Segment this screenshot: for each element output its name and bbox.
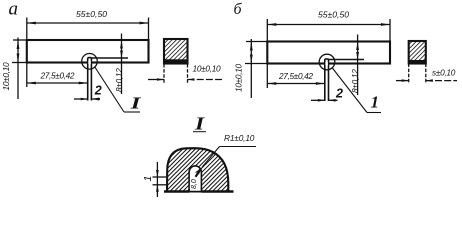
white gap in bar bottom edge at slot [88, 61, 91, 65]
svg-text:1: 1 [142, 176, 154, 182]
dimension 10±0,10 left (b) [245, 39, 267, 98]
dimension 27,5±0,42 (b) [267, 64, 325, 89]
svg-text:2: 2 [335, 87, 343, 101]
svg-text:8,0: 8,0 [191, 179, 198, 189]
bar a outline [27, 40, 149, 63]
cross-section square (a) [164, 39, 188, 64]
detail notch arch [189, 166, 201, 192]
dimension 8±0,12 (a) [91, 34, 128, 95]
detail dim 1 (left) [153, 162, 167, 197]
dimension 2 (b) [311, 99, 338, 101]
svg-text:1: 1 [371, 93, 380, 112]
svg-text:8±0,12: 8±0,12 [350, 69, 360, 93]
svg-text:27,5±0,42: 27,5±0,42 [40, 71, 75, 81]
svg-text:I: I [130, 93, 142, 112]
svg-text:55±0,50: 55±0,50 [318, 10, 349, 20]
thick base of rect (b) [409, 60, 426, 64]
svg-text:8±0,12: 8±0,12 [114, 68, 124, 92]
cross-section rect (b) [409, 41, 426, 64]
svg-text:10±0,10: 10±0,10 [193, 64, 222, 74]
detail radius leader R1±0,10 [202, 147, 256, 168]
svg-text:55±0,50: 55±0,50 [76, 9, 107, 19]
dimension 27,5±0,42 (a) [27, 63, 88, 88]
svg-text:10±0,10: 10±0,10 [1, 62, 11, 91]
white gap in bar b bottom edge at slot [325, 62, 328, 66]
svg-text:27,5±0,42: 27,5±0,42 [278, 71, 313, 81]
leader to detail I (a) [95, 67, 141, 113]
notch slot in bar b [325, 59, 329, 101]
svg-text:б: б [234, 1, 243, 18]
svg-text:s±0,10: s±0,10 [432, 68, 456, 78]
notch slot in bar a [88, 58, 92, 101]
dimension 2 (a) [74, 98, 100, 100]
svg-text:2: 2 [94, 84, 102, 98]
detail circle on bar a [82, 54, 98, 70]
radius arrow inside notch [195, 168, 202, 175]
svg-text:I: I [194, 114, 205, 133]
dimension 8±0,12 (b) [329, 35, 365, 96]
thick base of square (a) [164, 59, 188, 64]
dimension 55±0,50 (b) [267, 19, 390, 42]
detail base thick line left part [164, 190, 189, 193]
svg-text:10±0,10: 10±0,10 [234, 63, 244, 92]
bar b outline [267, 42, 390, 64]
dimension 10±0,10 left (a) [12, 38, 27, 100]
detail base thick line right part [201, 190, 233, 193]
detail circle on bar b [319, 54, 335, 70]
svg-text:а: а [9, 0, 19, 20]
detail I title underline [193, 131, 206, 133]
leader to detail 1 (b) [332, 68, 381, 113]
detail dome hatched body [167, 148, 228, 191]
dimension 10±0,10 under square (a) [148, 64, 222, 83]
svg-text:R1±0,10: R1±0,10 [224, 133, 255, 143]
dimension s±0,10 under rect (b) [396, 64, 457, 85]
dimension 55±0,50 (a) [27, 18, 149, 41]
